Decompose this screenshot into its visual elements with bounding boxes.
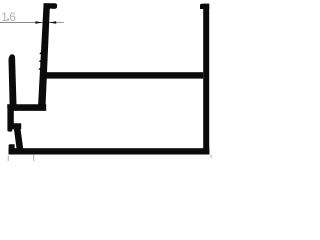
right wall top lip bbox=[200, 4, 209, 9]
left leg with crossbar (hook) bbox=[7, 109, 21, 130]
dimension arrow right bbox=[49, 21, 56, 23]
extension tick bottom-middle bbox=[33, 155, 35, 161]
down leg bbox=[14, 127, 24, 155]
top flange of left wall with rounded end bbox=[44, 3, 58, 9]
wall serration tooth 3 bbox=[38, 67, 41, 70]
svg-text:1: 1 bbox=[1, 10, 8, 24]
U channel bottom bbox=[7, 104, 46, 111]
dimension line right bbox=[49, 22, 64, 24]
wall serration tooth 1 bbox=[39, 52, 42, 55]
bottom-left lip bbox=[9, 144, 15, 154]
bottom web bbox=[9, 148, 210, 154]
left leg tail below crossbar bbox=[7, 126, 12, 132]
middle web bbox=[44, 72, 204, 78]
gasket leg (left slanted bar with curved tip) bbox=[9, 54, 17, 105]
extension tick bottom-left bbox=[7, 156, 9, 161]
wall serration tooth 2 bbox=[39, 60, 42, 63]
extension tick bottom-right bbox=[210, 155, 212, 159]
right wall bbox=[203, 4, 209, 155]
svg-text:6: 6 bbox=[9, 10, 16, 24]
dimension line left bbox=[0, 22, 43, 24]
left wall (slanted) bbox=[38, 3, 50, 104]
dimension arrow left bbox=[35, 21, 42, 23]
